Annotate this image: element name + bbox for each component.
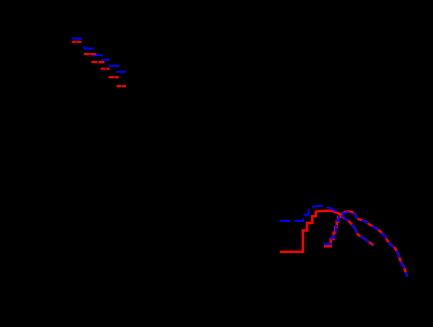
- blue staircase tread 2: [84, 46, 94, 48]
- red staircase tread 2: [84, 53, 96, 55]
- red solid curve, hump A (rises from y=252, peaks near x=325, steep tail to (374,246)): [280, 211, 374, 252]
- blue dashed curve, hump B (overlaps red hump B, slightly above on the lead-in): [324, 212, 407, 277]
- blue staircase tread 6: [117, 71, 126, 73]
- red solid curve, hump B (steep staircase rise near x=331, peak near x=349, long tail to (407,276)): [324, 211, 407, 276]
- blue dashed staircase (upper-left), tread 1: [72, 38, 82, 40]
- blue dash at tip of hump B tail: [406, 273, 408, 277]
- blue staircase tread 4: [102, 59, 110, 61]
- red staircase tread 5: [109, 76, 119, 78]
- blue staircase tread 5: [109, 65, 120, 67]
- blue staircase tread 3: [92, 54, 102, 56]
- red staircase tread 3: [92, 61, 105, 63]
- blue dashed curve, hump A (horizontal y=221 from x=280, peaks near x=320, tail overlapping red): [280, 206, 374, 246]
- red staircase tread 4: [101, 68, 110, 70]
- red dashed staircase (upper-left), tread 1: [72, 41, 82, 43]
- red staircase tread 6: [117, 85, 126, 87]
